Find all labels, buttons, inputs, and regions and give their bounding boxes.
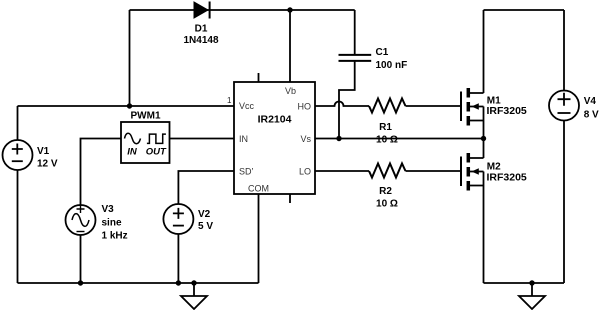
wire top rail [130,9,355,11]
wire M1 drain riser [483,10,485,93]
svg-text:IN: IN [239,134,248,144]
wire Vb riser [289,10,291,82]
svg-text:IRF3205: IRF3205 [487,171,527,183]
wire COM to ground rail [258,194,260,283]
node V3 ground junction [78,280,83,285]
svg-text:5 V: 5 V [198,221,213,232]
wire bottom rail left [18,282,259,284]
svg-text:V4: V4 [584,96,597,107]
pin stub top unused [258,73,260,82]
voltage source V3 [66,139,128,284]
svg-text:PWM1: PWM1 [131,110,161,121]
svg-text:1N4148: 1N4148 [183,35,218,46]
op-amp U1 IR2104 driver box [234,82,315,194]
voltage source V4 [549,10,599,283]
wire Vcc run from V1 to IC [18,105,235,107]
svg-text:10 Ω: 10 Ω [376,198,398,209]
ground left [181,280,207,309]
diode D1 [183,2,218,47]
svg-text:SD’: SD’ [239,166,254,176]
svg-text:12 V: 12 V [37,159,58,170]
node Vb junction on top rail [287,7,292,12]
svg-text:R2: R2 [379,186,392,197]
wire bottom rail right [484,282,565,284]
ground right [519,280,545,309]
wire SD' to V2 [178,171,234,204]
wire HO with hop over C1 lead [315,102,369,107]
svg-text:Vs: Vs [300,134,311,144]
wire left riser from top rail to Vcc line [129,10,131,106]
wire LO run [315,170,369,172]
node V2 ground junction [176,280,181,285]
wire R1 to M1 gate [406,105,462,107]
node junction Vcc/riser [127,103,132,108]
voltage source V1 [3,106,58,283]
svg-text:IN: IN [127,147,138,158]
svg-text:1 kHz: 1 kHz [102,231,128,242]
transistor M1 [461,88,527,126]
svg-text:Vcc: Vcc [239,101,255,111]
svg-text:V1: V1 [37,146,50,157]
resistor R2 [369,164,406,210]
capacitor C1 [339,47,408,71]
svg-text:8 V: 8 V [584,110,599,121]
svg-text:D1: D1 [195,23,208,34]
svg-text:C1: C1 [376,47,389,58]
svg-text:R1: R1 [379,122,392,133]
svg-text:1: 1 [227,96,232,105]
svg-text:100 nF: 100 nF [376,60,408,71]
wire PWM1 out to IC IN [170,138,235,140]
svg-text:IR2104: IR2104 [258,114,292,126]
svg-text:LO: LO [299,166,311,176]
pin stub bottom unused [289,194,291,203]
svg-text:10 Ω: 10 Ω [376,135,398,146]
svg-text:OUT: OUT [146,147,167,158]
svg-text:V3: V3 [102,204,115,215]
wire R2 to M2 gate [406,170,462,172]
svg-text:HO: HO [298,101,312,111]
svg-text:V2: V2 [198,209,211,220]
resistor R1 [369,99,406,146]
transistor M2 [461,153,527,191]
node Vs/C1 junction [336,136,341,141]
svg-text:sine: sine [102,218,122,229]
node Vs/half-bridge junction [481,136,486,141]
wire Vs run [315,138,484,140]
voltage source V2 [163,204,213,283]
wire C1 bottom lead down to Vs node [339,62,355,139]
wire M1 source to M2 drain [483,107,485,159]
wire C1 top lead [354,10,356,54]
svg-text:IRF3205: IRF3205 [487,105,527,117]
svg-text:COM: COM [248,183,269,193]
PWM1 block [121,110,170,163]
wire M2 source to ground rail [483,172,485,284]
wire right loop top [484,9,565,11]
svg-text:Vb: Vb [285,86,296,96]
